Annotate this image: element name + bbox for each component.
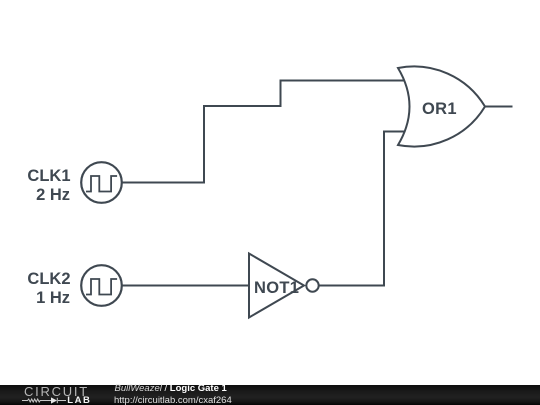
svg-text:CLK1: CLK1 [27, 167, 70, 185]
footer bar [0, 385, 540, 405]
logo resistor and diode line [22, 398, 66, 403]
clock source CLK2 [81, 265, 122, 306]
wire CLK2 output to NOT1 input [122, 285, 249, 287]
clock source CLK1 [81, 162, 122, 203]
svg-text:NOT1: NOT1 [254, 279, 299, 297]
wire OR1 output [485, 106, 513, 108]
svg-text:LAB: LAB [67, 395, 91, 405]
svg-text:1 Hz: 1 Hz [36, 289, 70, 307]
CircuitLab logo [0, 385, 95, 405]
svg-text:CLK2: CLK2 [27, 270, 70, 288]
inverter NOT1 [249, 254, 319, 318]
svg-text:OR1: OR1 [422, 100, 457, 118]
or-gate OR1 [398, 66, 485, 146]
wire NOT1 output to OR1 input B [318, 132, 404, 286]
wire CLK1 output to OR1 input A [122, 81, 404, 183]
svg-text:2 Hz: 2 Hz [36, 186, 70, 204]
credit text [114, 384, 116, 386]
